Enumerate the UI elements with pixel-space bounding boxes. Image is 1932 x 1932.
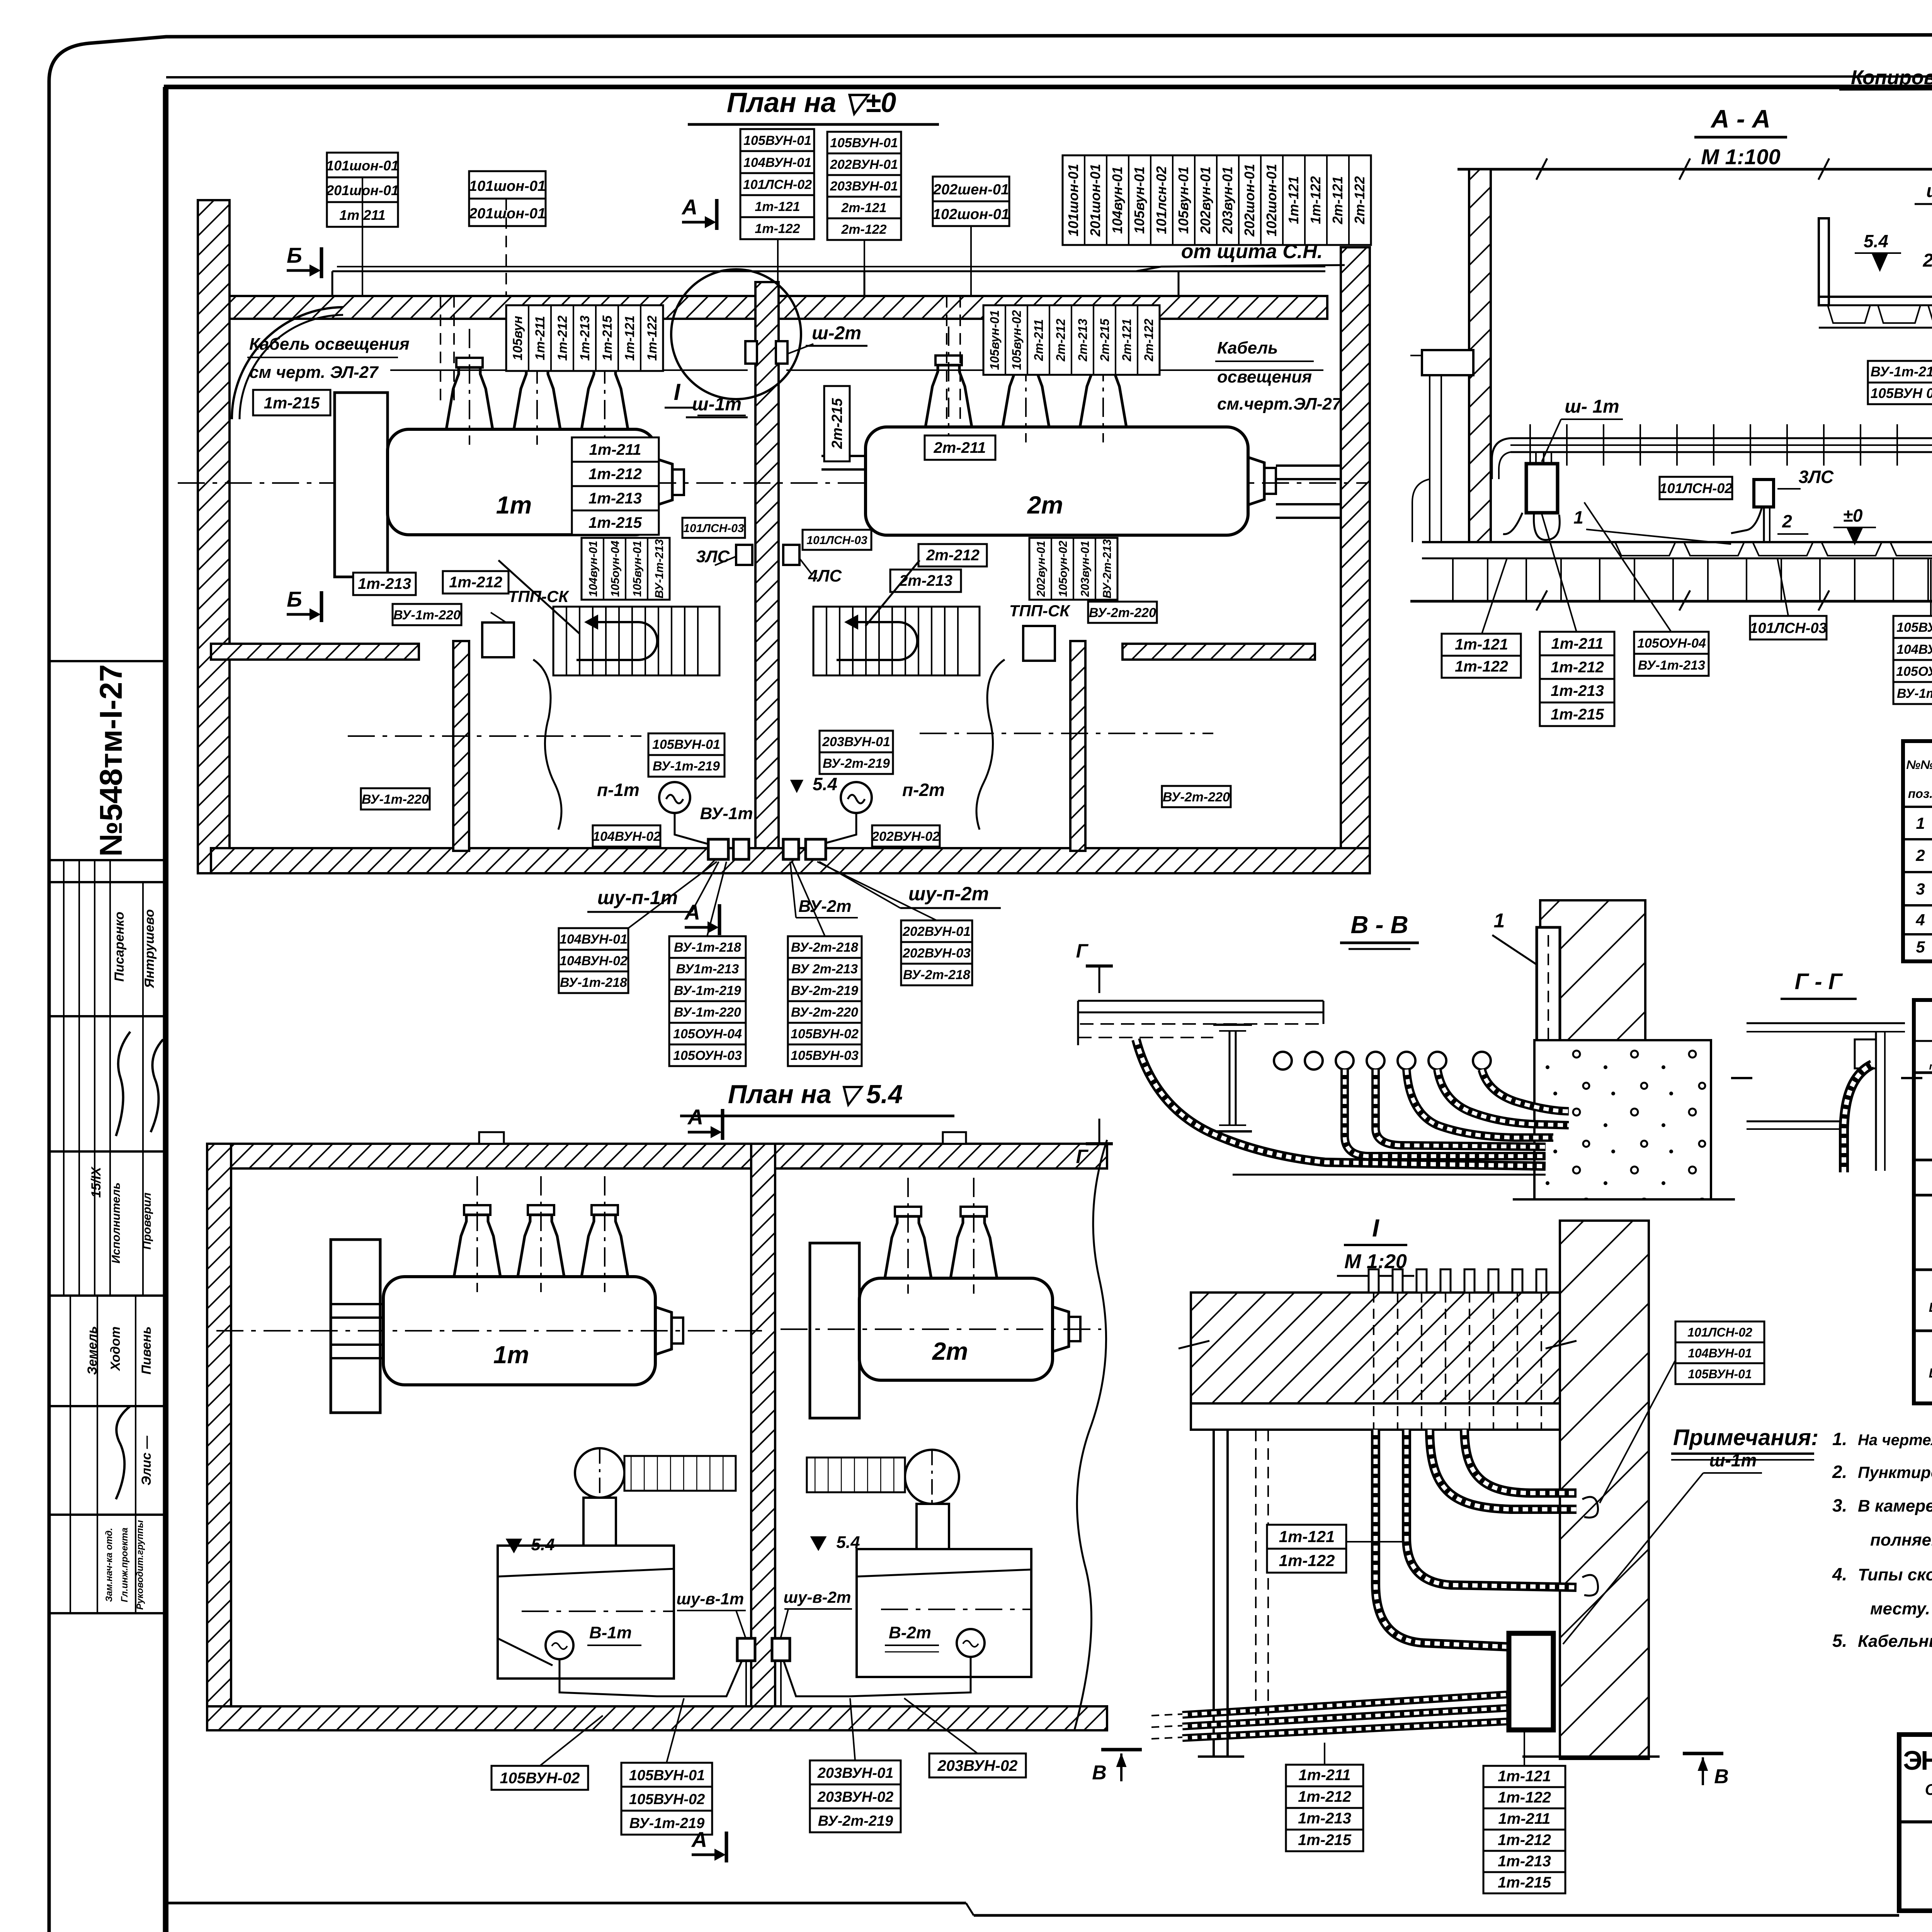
- svg-text:2: 2: [1915, 846, 1925, 864]
- svg-text:1т-211: 1т-211: [1498, 1810, 1551, 1827]
- V-V cable end circles: [1274, 1052, 1491, 1070]
- svg-text:101ЛСН-02: 101ЛСН-02: [1687, 1325, 1752, 1339]
- strip signatures row2: [116, 1406, 130, 1499]
- svg-text:5: 5: [1916, 938, 1925, 956]
- label box 105VUN stack 2t: [827, 132, 901, 240]
- transformer 1T left cabinet: [335, 393, 388, 577]
- A-A cabinet sh-1t: [1526, 464, 1558, 513]
- TPP-SK box right: [1009, 602, 1071, 661]
- svg-text:101шон-01: 101шон-01: [1065, 164, 1081, 236]
- plan1 detail I mark: [665, 379, 696, 408]
- transformer 1T: [388, 329, 684, 535]
- svg-text:шу-в-1т: шу-в-1т: [677, 1590, 744, 1608]
- vertical labels below 1T: [582, 538, 670, 600]
- svg-text:Пунктиром показаны участки каб: Пунктиром показаны участки кабелей, прок…: [1858, 1463, 1932, 1481]
- label box 1t-211 stack AA: [1540, 632, 1614, 726]
- svg-text:2т-211: 2т-211: [934, 439, 986, 456]
- plan2 axis 1T: [216, 1330, 769, 1332]
- svg-text:шу-в-2т: шу-в-2т: [784, 1588, 851, 1606]
- V-V duct on wall: [1537, 927, 1560, 1056]
- plan1 cable drops from labels: [362, 177, 971, 421]
- label box 101LSN-03 AA: [1750, 616, 1827, 639]
- spec table grid: [1903, 741, 1932, 961]
- vertical labels below 2T: [1029, 538, 1117, 600]
- svg-text:ВУ-2т-219: ВУ-2т-219: [791, 983, 858, 998]
- V-V beam structure left: [1078, 1001, 1323, 1045]
- svg-text:1т-215: 1т-215: [264, 394, 320, 412]
- left stamp strip frame: [49, 87, 164, 1932]
- svg-text:3.: 3.: [1832, 1495, 1847, 1515]
- svg-text:202ВУН-03: 202ВУН-03: [902, 946, 971, 961]
- detail I cabinet sh-1t: [1509, 1633, 1553, 1730]
- svg-text:Г: Г: [1076, 1146, 1089, 1167]
- svg-text:ВУ-1т-220: ВУ-1т-220: [362, 792, 429, 807]
- svg-text:3: 3: [1916, 880, 1925, 898]
- plan2 fan down-duct left: [583, 1498, 616, 1548]
- bottom band line: [166, 1903, 1899, 1915]
- svg-text:см.черт.ЭЛ-27: см.черт.ЭЛ-27: [1217, 395, 1342, 413]
- svg-text:ш-1т: ш-1т: [692, 394, 742, 415]
- svg-text:1т-213: 1т-213: [1298, 1810, 1351, 1827]
- svg-text:1т-211: 1т-211: [589, 441, 641, 458]
- svg-text:№№: №№: [1906, 758, 1932, 772]
- stairs left chamber: [553, 607, 719, 675]
- plan2 cabinet shu-v-1t: [737, 1638, 755, 1661]
- svg-text:105ОУН-04: 105ОУН-04: [1896, 664, 1932, 679]
- A-A cabinet 3LS: [1731, 467, 1834, 542]
- vertical labels above 2T: [983, 305, 1160, 375]
- svg-text:1т-213: 1т-213: [588, 490, 642, 507]
- notes title: [1671, 1425, 1818, 1460]
- plan1 feed line ot shchita: [332, 271, 1325, 296]
- detail I cable braids down: [1430, 1430, 1577, 1509]
- svg-text:105ОУН-04: 105ОУН-04: [673, 1027, 742, 1041]
- label box 104VUN-01 stack: [559, 928, 628, 993]
- plan2 fan right: [905, 1450, 959, 1504]
- svg-text:3ЛС: 3ЛС: [1799, 467, 1834, 487]
- A-A leader lines to bottom labels: [1482, 502, 1932, 634]
- svg-text:ВУ-2т-220: ВУ-2т-220: [791, 1005, 858, 1020]
- label box 1t-215: [253, 390, 330, 415]
- svg-text:105ВУН-02: 105ВУН-02: [629, 1791, 705, 1808]
- svg-text:Писаренко: Писаренко: [112, 912, 127, 981]
- svg-text:2т-213: 2т-213: [1076, 319, 1090, 362]
- label shu-p-2t: [819, 862, 1001, 908]
- vertical labels above 1T: [506, 305, 663, 371]
- svg-text:Пивень: Пивень: [139, 1327, 154, 1375]
- svg-text:1т-121: 1т-121: [622, 315, 637, 361]
- welding panel 4LS: [783, 545, 842, 585]
- svg-text:ВУ-1т-219: ВУ-1т-219: [653, 759, 720, 774]
- svg-text:Г - Г: Г - Г: [1795, 969, 1843, 994]
- svg-text:Руководит.группы: Руководит.группы: [135, 1520, 145, 1610]
- svg-text:105ОУН-03: 105ОУН-03: [673, 1048, 742, 1063]
- plan2 shu-v-2t label: [781, 1588, 852, 1638]
- svg-text:202ВУН-01: 202ВУН-01: [902, 924, 971, 939]
- label box 1t-211..215: [572, 437, 659, 535]
- A-A sh-1t label: [1542, 396, 1623, 462]
- svg-text:1т: 1т: [493, 1341, 529, 1369]
- svg-text:101ЛСН-03: 101ЛСН-03: [806, 534, 867, 547]
- plan2 transformer 1T: [383, 1176, 683, 1385]
- svg-text:Типы скоб для крепления кабеле: Типы скоб для крепления кабелей (поз. 4)…: [1858, 1565, 1932, 1584]
- plan2 fan left: [575, 1448, 624, 1498]
- welding panel 3LS: [696, 545, 752, 566]
- label box 2t-213: [890, 570, 961, 592]
- label box 101shon/201shon: [469, 171, 546, 226]
- svg-text:105ВУН-02: 105ВУН-02: [500, 1770, 580, 1787]
- detail I leaders to stacks: [1325, 1731, 1524, 1766]
- detail I leader 1t-121: [1346, 1541, 1403, 1543]
- svg-text:1т-212: 1т-212: [1551, 659, 1604, 676]
- svg-text:ВУ-2т-220: ВУ-2т-220: [1089, 605, 1156, 620]
- svg-text:201шон-01: 201шон-01: [1087, 164, 1103, 237]
- svg-text:2т-121: 2т-121: [841, 201, 886, 215]
- svg-text:План на ▽±0: План на ▽±0: [727, 87, 896, 118]
- plan2 cable drops: [560, 1657, 971, 1706]
- svg-text:ВУ-2т-220: ВУ-2т-220: [1163, 790, 1230, 804]
- cabinet shu-p-1t on wall: [708, 839, 728, 859]
- strip small column dividers: [64, 860, 143, 1613]
- plan2 equipment box right: [857, 1549, 1031, 1677]
- svg-text:1т-215: 1т-215: [588, 514, 642, 531]
- spec table rows text: [1915, 811, 1932, 957]
- plan2 level mark 5.4 right: [811, 1533, 860, 1552]
- svg-text:1: 1: [1494, 910, 1505, 932]
- svg-text:5.4: 5.4: [836, 1533, 860, 1552]
- svg-text:ш-1т: ш-1т: [1709, 1450, 1757, 1470]
- svg-text:Б: Б: [287, 243, 302, 267]
- label box 105VUN-02 p2: [492, 1766, 588, 1790]
- svg-text:1т-212: 1т-212: [449, 574, 502, 591]
- detail I ground line: [1198, 1755, 1660, 1758]
- label box 101LSN-02 AA: [1660, 477, 1733, 499]
- svg-text:ВУ-1т-213: ВУ-1т-213: [1638, 658, 1705, 673]
- svg-text:Б: Б: [287, 587, 302, 611]
- detail I leader to hooks: [1600, 1360, 1675, 1503]
- svg-text:203ВУН-01: 203ВУН-01: [830, 179, 898, 194]
- svg-text:105ВУН 01: 105ВУН 01: [1871, 385, 1932, 401]
- plan2 leader lines bottom: [540, 1698, 978, 1766]
- A-A cable tray run: [1492, 424, 1932, 479]
- svg-text:1т-213: 1т-213: [1498, 1853, 1551, 1870]
- svg-text:101ЛСН-03: 101ЛСН-03: [1750, 620, 1827, 636]
- svg-text:2т-122: 2т-122: [841, 222, 886, 237]
- plan1 lower room wall right: [1070, 641, 1085, 851]
- A-A outside stub left: [1410, 350, 1473, 542]
- svg-text:ВУ-1т-218: ВУ-1т-218: [560, 975, 627, 990]
- svg-text:101ЛСН-02: 101ЛСН-02: [1660, 480, 1733, 496]
- plan1 right wall: [1341, 247, 1370, 873]
- svg-text:105ВУН-01: 105ВУН-01: [743, 133, 811, 148]
- plan1 interior wall right: [1122, 644, 1315, 660]
- G-G cable braid: [1844, 1065, 1872, 1172]
- leader lines to bottom stacks: [628, 862, 937, 936]
- detail I anchor studs: [1369, 1269, 1546, 1430]
- label box 1t-121 stack dI: [1483, 1766, 1565, 1893]
- detail I wall right: [1560, 1221, 1649, 1759]
- plan2 top wall pilasters: [479, 1132, 504, 1144]
- A-A level mark 5.4: [1855, 231, 1901, 270]
- A-A pos 2 label lower: [1777, 511, 1808, 534]
- plan2 transformer 2T: [859, 1178, 1080, 1380]
- plan2 section mark A top: [687, 1105, 723, 1140]
- svg-text:104ВУН-01: 104ВУН-01: [560, 932, 628, 947]
- svg-text:п-1т: п-1т: [597, 780, 639, 800]
- svg-text:105ОУН-04: 105ОУН-04: [1637, 636, 1706, 651]
- detail I ceiling slab: [1191, 1293, 1560, 1403]
- svg-text:Кабель освещения: Кабель освещения: [249, 335, 410, 354]
- svg-text:105оун-02: 105оун-02: [1057, 541, 1070, 597]
- label box 105OUN-04 AA: [1634, 632, 1709, 676]
- A-A foundation and ground: [1410, 558, 1932, 611]
- svg-text:203ВУН-01: 203ВУН-01: [817, 1765, 894, 1781]
- svg-text:ВУ-1т-213: ВУ-1т-213: [1897, 686, 1932, 701]
- title block org name: [1903, 1745, 1932, 1820]
- svg-text:2т-121: 2т-121: [1330, 176, 1345, 224]
- svg-text:Кабельный журнал см. черт. № Э: Кабельный журнал см. черт. № ЭЛ-26.: [1858, 1632, 1932, 1651]
- svg-text:104вун-01: 104вун-01: [587, 541, 600, 597]
- plan2 transformer 2T left cabinet: [810, 1243, 859, 1418]
- plan2 axis 2T: [781, 1328, 1101, 1330]
- svg-text:ВУ-1т-220: ВУ-1т-220: [674, 1005, 741, 1020]
- svg-text:±0: ±0: [1843, 505, 1863, 526]
- svg-text:В - В: В - В: [1350, 911, 1408, 939]
- svg-text:102шон-01: 102шон-01: [933, 206, 1009, 223]
- strip signatures row: [116, 1032, 130, 1136]
- svg-text:ТПП-СК: ТПП-СК: [508, 587, 570, 605]
- label box 1t-121/122 dI: [1267, 1525, 1346, 1573]
- plan1 lower room wall left: [453, 641, 469, 851]
- label box 101LSN-03 L: [682, 518, 745, 538]
- svg-text:105вун: 105вун: [510, 316, 525, 360]
- svg-text:ш- 1т: ш- 1т: [1565, 396, 1619, 417]
- svg-text:105ВУН-03: 105ВУН-03: [791, 1048, 859, 1063]
- label box 1t-213: [353, 573, 416, 595]
- plan2 transformer 1T rails: [331, 1304, 386, 1358]
- svg-text:105ВУН-01: 105ВУН-01: [629, 1767, 705, 1784]
- svg-text:ВУ1т-213: ВУ1т-213: [676, 962, 739, 976]
- svg-text:203вун-01: 203вун-01: [1079, 541, 1092, 597]
- svg-text:Копировал: Тюрина: Копировал: Тюрина: [1851, 66, 1932, 89]
- svg-text:Г: Г: [1076, 940, 1089, 962]
- svg-text:15/IX: 15/IX: [89, 1166, 104, 1198]
- V-V section mark G top: [1076, 940, 1113, 993]
- plan2 fan V-1t: [546, 1623, 641, 1659]
- label box VU-1t-219 AA: [1868, 361, 1932, 404]
- svg-text:2т-212: 2т-212: [926, 547, 980, 564]
- plan1 title: [688, 87, 939, 124]
- label box VU-2t stack: [788, 936, 862, 1066]
- svg-text:1т-212: 1т-212: [588, 466, 642, 483]
- plan1 chamber cable run lines: [390, 369, 1323, 371]
- svg-text:2: 2: [1923, 250, 1932, 271]
- svg-text:104ВУН-01: 104ВУН-01: [743, 155, 811, 170]
- svg-text:ТПП-СК: ТПП-СК: [1009, 602, 1071, 620]
- V-V pos 1 label: [1492, 910, 1536, 964]
- A-A level mark 0: [1833, 505, 1876, 544]
- svg-text:ВУ-1т-219: ВУ-1т-219: [674, 983, 741, 998]
- svg-text:5.4: 5.4: [531, 1535, 554, 1554]
- plan2 middle wall: [751, 1144, 775, 1730]
- V-V wall upper: [1540, 900, 1645, 1040]
- svg-text:1т-215: 1т-215: [1298, 1832, 1352, 1849]
- svg-text:1т-213: 1т-213: [1551, 682, 1604, 699]
- svg-text:1т-122: 1т-122: [1498, 1789, 1551, 1806]
- svg-text:А: А: [691, 1827, 707, 1852]
- plan1 interior wall left: [211, 644, 419, 660]
- svg-text:ВУ-2т-218: ВУ-2т-218: [903, 968, 970, 982]
- title block frame: [1899, 1735, 1932, 1911]
- plan1 cabinet sh-1t: [745, 341, 757, 364]
- cable blob right chamber: [976, 660, 1005, 830]
- A-A pos 2 label upper: [1923, 250, 1932, 280]
- svg-text:104ВУН-02: 104ВУН-02: [560, 954, 628, 968]
- plan2 transformer 1T left cabinet: [331, 1240, 380, 1413]
- stairs diagonal pointer right: [866, 560, 920, 626]
- transformer 1T left rails: [335, 456, 390, 512]
- svg-text:1т-121: 1т-121: [1279, 1527, 1335, 1546]
- svg-text:2: 2: [1782, 511, 1792, 531]
- svg-text:Ходот: Ходот: [108, 1327, 123, 1371]
- cable blob left chamber: [533, 660, 561, 830]
- plan1 kabel osveshcheniya note left: [247, 335, 410, 382]
- A-A cabinet feed loops: [1503, 452, 1560, 540]
- plan1 corner cable arc: [232, 307, 343, 419]
- svg-text:1т-121: 1т-121: [1455, 636, 1508, 653]
- svg-text:I: I: [674, 379, 681, 405]
- svg-text:месту.: месту.: [1870, 1599, 1930, 1618]
- svg-text:ВУ-2т: ВУ-2т: [798, 897, 851, 916]
- plan1 detail I callout circle: [671, 269, 801, 399]
- plan2 left wall: [207, 1144, 231, 1730]
- svg-text:2т-211: 2т-211: [1032, 319, 1046, 361]
- svg-text:Зам.нач-ка отд.: Зам.нач-ка отд.: [104, 1528, 114, 1602]
- svg-text:ЭНЕРГОСЕТЬПРОЕКТ: ЭНЕРГОСЕТЬПРОЕКТ: [1903, 1745, 1932, 1776]
- svg-text:ВУ-2т-218: ВУ-2т-218: [791, 940, 858, 955]
- plan1 second conduit line: [337, 266, 1325, 267]
- A-A pos 1 label: [1573, 507, 1731, 544]
- svg-text:ВУ-1т-219: ВУ-1т-219: [1871, 364, 1932, 379]
- svg-text:201шон-01: 201шон-01: [469, 206, 546, 222]
- svg-text:ВУ-2т-219: ВУ-2т-219: [823, 756, 890, 771]
- V-V bundle base line: [1233, 1174, 1546, 1176]
- notes text: [1832, 1429, 1932, 1651]
- svg-text:101ЛСН-02: 101ЛСН-02: [743, 177, 812, 192]
- svg-text:1т-121: 1т-121: [1498, 1768, 1551, 1785]
- svg-text:ВУ 2т-213: ВУ 2т-213: [791, 962, 858, 976]
- svg-text:105ВУН-01: 105ВУН-01: [652, 737, 720, 752]
- label box 202shen/102shon: [933, 177, 1009, 226]
- svg-text:1: 1: [1573, 507, 1583, 527]
- svg-text:1т-122: 1т-122: [1279, 1551, 1335, 1570]
- V-V I-beam: [1213, 1025, 1252, 1131]
- svg-text:Элис —: Элис —: [139, 1435, 154, 1486]
- svg-text:В-1т: В-1т: [589, 1623, 632, 1642]
- label box 202VUN-02: [871, 825, 940, 847]
- label box 101LSN-03 R: [803, 530, 871, 550]
- label box 104VUN-02: [593, 825, 661, 847]
- plan1 top wall: [230, 296, 1327, 319]
- detail I title: [1337, 1214, 1414, 1276]
- TPP-SK box left: [482, 587, 570, 657]
- svg-text:102шон-01: 102шон-01: [1264, 164, 1279, 236]
- svg-text:2т: 2т: [1027, 491, 1063, 519]
- svg-text:4ЛС: 4ЛС: [808, 566, 842, 585]
- detail I bottom bundle braids: [1182, 1694, 1509, 1715]
- A-A ceiling line: [1458, 158, 1932, 180]
- svg-text:105ВУН-02: 105ВУН-02: [791, 1027, 859, 1041]
- svg-text:1т-122: 1т-122: [645, 315, 660, 361]
- svg-text:ВУ-1т-220: ВУ-1т-220: [393, 608, 461, 622]
- svg-text:ш-2т: ш-2т: [812, 323, 861, 344]
- plan1 section mark B top: [287, 243, 321, 278]
- cabinet table rows text: [1929, 1087, 1932, 1401]
- plan1 kabel osveshcheniya note right: [1215, 338, 1342, 413]
- svg-text:2т: 2т: [932, 1337, 968, 1365]
- svg-text:1т-212: 1т-212: [555, 315, 570, 361]
- svg-text:203ВУН-01: 203ВУН-01: [822, 735, 890, 749]
- label box 2t-212: [918, 544, 987, 566]
- svg-text:Проверил: Проверил: [141, 1192, 153, 1250]
- transformer 2T: [866, 327, 1276, 535]
- plan1 ot shchita S.N. note: [1136, 240, 1345, 271]
- svg-text:2т-122: 2т-122: [1352, 176, 1367, 224]
- label box 203VUN-01/VU-2t-219: [820, 731, 893, 774]
- svg-text:I: I: [1372, 1214, 1379, 1242]
- label VU-2t lower: [790, 862, 858, 918]
- stairs right chamber: [813, 607, 980, 675]
- svg-text:105вун-01: 105вун-01: [988, 310, 1002, 370]
- transformer 2T right rails: [1276, 466, 1341, 518]
- label box 101shon/201shon/1t211: [326, 153, 399, 227]
- plan2 section mark A bottom: [691, 1827, 726, 1862]
- svg-text:см черт. ЭЛ-27: см черт. ЭЛ-27: [249, 363, 379, 382]
- plan2 shu-v-1t label: [677, 1590, 746, 1638]
- svg-text:от щита С.Н.: от щита С.Н.: [1181, 240, 1323, 263]
- fan p-1t: [659, 782, 690, 813]
- svg-text:1т-121: 1т-121: [755, 199, 800, 214]
- label box VU-1t-220 u: [393, 604, 461, 625]
- svg-text:1т-215: 1т-215: [1498, 1874, 1551, 1891]
- svg-text:шу-п-2т: шу-п-2т: [908, 883, 989, 905]
- plan1 sh-1t label: [686, 394, 748, 417]
- svg-text:1т-122: 1т-122: [1455, 658, 1508, 675]
- svg-text:Северо-Западное отделение: Северо-Западное отделение: [1925, 1781, 1932, 1798]
- svg-text:104вун-01: 104вун-01: [1109, 167, 1125, 234]
- plan2 fan down-duct right: [917, 1504, 949, 1550]
- V-V concrete block: [1513, 1040, 1735, 1199]
- spec table header text: [1906, 754, 1932, 805]
- plan1 sh-2t label: [788, 323, 867, 354]
- detail I section mark V right: [1683, 1753, 1729, 1788]
- svg-text:105вун-01: 105вун-01: [631, 541, 644, 597]
- plan2 equipment box left: [498, 1546, 674, 1679]
- plan1 section mark B bottom: [287, 587, 321, 622]
- plan2 break line right: [1074, 1140, 1107, 1731]
- label box 1t-211 stack dI: [1286, 1765, 1363, 1851]
- plan1 section mark A top: [681, 195, 717, 230]
- svg-text:1т: 1т: [496, 491, 532, 519]
- svg-text:2т-212: 2т-212: [1054, 319, 1068, 362]
- svg-text:1т-212: 1т-212: [1298, 1788, 1351, 1805]
- cabinet vu-1t on wall: [733, 839, 749, 859]
- label box 2t-215 vertical: [824, 386, 850, 461]
- detail I wall anchor hooks: [1582, 1497, 1598, 1595]
- label box VU-1t stack: [669, 936, 746, 1066]
- svg-text:шу-п-1т: шу-п-1т: [597, 887, 678, 908]
- cabinet shu-p-2t on wall: [806, 839, 826, 859]
